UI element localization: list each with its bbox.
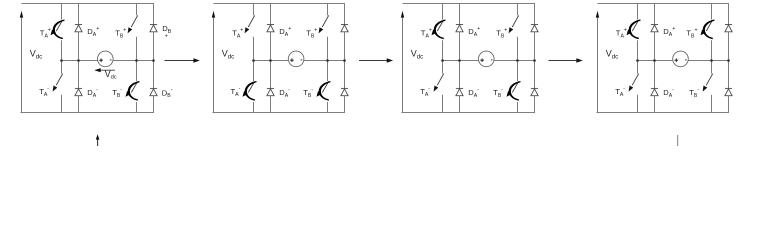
svg-text:TB-: TB- <box>689 87 699 99</box>
svg-text:DA+: DA+ <box>87 26 99 38</box>
wire: positive DC bus (stage 4) <box>598 3 730 5</box>
node: A-diode midpoint junction (stage 4) <box>653 59 656 62</box>
svg-text:Vdc: Vdc <box>411 49 424 61</box>
svg-text:TB+: TB+ <box>306 27 317 39</box>
transistor TA+ (stage 4, conducting) <box>627 4 641 61</box>
transistor TA+ (stage 1, conducting) <box>51 4 65 61</box>
wire: output node A to load (stage 4) <box>638 60 673 62</box>
svg-text:TA+: TA+ <box>232 27 243 39</box>
svg-text:DA+: DA+ <box>468 26 480 38</box>
output source vo (stage 1) <box>98 51 114 67</box>
node: A-transistor midpoint junction (stage 1) <box>60 59 63 62</box>
node: B-transistor midpoint junction (stage 1) <box>135 59 138 62</box>
svg-text:TA+: TA+ <box>616 27 627 39</box>
svg-text:Vdc: Vdc <box>105 69 117 81</box>
wire: load to output node B (stage 1) <box>113 60 153 62</box>
node: A-transistor midpoint junction (stage 3) <box>441 59 444 62</box>
wire: negative DC bus (stage 4) <box>597 112 730 114</box>
transistor TB+ (stage 3) <box>509 4 519 61</box>
transistor TB+ (stage 4, conducting) <box>701 4 715 61</box>
output voltage Vdc arrow under source (stage 1) <box>94 68 115 72</box>
node: B-diode midpoint junction (stage 4) <box>727 59 730 62</box>
wire: load to output node B (stage 2) <box>304 60 345 62</box>
transistor TB- (stage 1, conducting) <box>126 61 140 113</box>
svg-text:TA+: TA+ <box>40 27 51 39</box>
svg-text:TB-: TB- <box>493 87 503 99</box>
output source vo (stage 3) <box>479 51 495 67</box>
node: B-transistor midpoint junction (stage 4) <box>710 59 713 62</box>
svg-text:TB+: TB+ <box>686 27 697 39</box>
diode DB+ (stage 1) <box>150 4 157 61</box>
wire: positive DC bus (stage 2) <box>214 3 346 5</box>
diode DA- (stage 1) <box>75 61 82 113</box>
transistor TB- (stage 3, conducting) <box>507 61 521 113</box>
stage 2: full-bridge inverter <box>212 4 348 113</box>
svg-text:DA-: DA- <box>468 87 479 99</box>
svg-text:TA-: TA- <box>231 86 241 98</box>
wire: load to output node B (stage 3) <box>494 60 534 62</box>
diode DB- (stage 3) <box>531 61 538 113</box>
transistor TB+ (stage 1) <box>128 4 138 61</box>
wire: negative DC bus (stage 1) <box>21 112 155 114</box>
transition arrow stage2 to stage3 <box>359 58 393 63</box>
diode DB+ (stage 4) <box>725 4 732 61</box>
wire: positive DC bus (stage 3) <box>403 3 536 5</box>
diode DA+ (stage 2) <box>267 4 274 61</box>
wire: output node A to load (stage 1) <box>62 60 98 62</box>
node: B-diode midpoint junction (stage 1) <box>152 59 155 62</box>
node: B-diode midpoint junction (stage 2) <box>343 59 346 62</box>
node: A-diode midpoint junction (stage 2) <box>269 59 272 62</box>
node: B-transistor midpoint junction (stage 3) <box>516 59 519 62</box>
svg-text:+: + <box>165 34 168 40</box>
diode DB- (stage 2) <box>341 61 348 113</box>
Vdc supply voltage arrow (stage 2) <box>212 11 215 113</box>
transistor TA- (stage 2, conducting) <box>243 61 257 113</box>
svg-text:TB-: TB- <box>112 87 122 99</box>
svg-text:TA-: TA- <box>420 86 430 98</box>
node: B-transistor midpoint junction (stage 2) <box>326 59 329 62</box>
diode DB- (stage 4) <box>725 61 732 113</box>
svg-text:Vdc: Vdc <box>30 49 43 61</box>
svg-text:TA-: TA- <box>39 86 49 98</box>
diode DA+ (stage 3) <box>456 4 463 61</box>
Vdc supply voltage arrow (stage 4) <box>596 11 599 113</box>
wire: output node A to load (stage 3) <box>443 60 479 62</box>
transistor TB- (stage 2, conducting) <box>317 61 331 113</box>
pointer arrow below stage 1 <box>96 134 100 146</box>
output source vo (stage 4) <box>673 51 689 67</box>
node: A-diode midpoint junction (stage 1) <box>77 59 80 62</box>
transistor TA- (stage 3) <box>434 61 444 113</box>
wire: positive DC bus (stage 1) <box>22 3 155 5</box>
transistor TB+ (stage 2) <box>319 4 329 61</box>
Vdc supply voltage arrow (stage 3) <box>401 11 404 113</box>
transition arrow stage3 to stage4 <box>549 58 583 63</box>
transistor TA+ (stage 2) <box>245 4 255 61</box>
diode DB+ (stage 3) <box>531 4 538 61</box>
svg-text:Vdc: Vdc <box>606 49 619 61</box>
wire: load to output node B (stage 4) <box>688 60 728 62</box>
output source vo (stage 2) <box>288 51 304 67</box>
diode DA- (stage 4) <box>651 61 658 113</box>
svg-text:DA+: DA+ <box>663 26 675 38</box>
Vdc supply voltage arrow (stage 1) <box>20 11 23 113</box>
stage 1: full-bridge inverter <box>20 4 173 147</box>
svg-text:TB-: TB- <box>303 87 313 99</box>
stage 4: full-bridge inverter <box>596 4 732 113</box>
wire: negative DC bus (stage 3) <box>402 112 536 114</box>
diode DB- (stage 1) <box>150 61 157 113</box>
node: A-transistor midpoint junction (stage 4) <box>636 59 639 62</box>
diode DA+ (stage 4) <box>651 4 658 61</box>
transistor TA+ (stage 3, conducting) <box>432 4 446 61</box>
transistor TA- (stage 4) <box>629 61 639 113</box>
wire: negative DC bus (stage 2) <box>213 112 346 114</box>
svg-text:DA-: DA- <box>663 87 674 99</box>
svg-text:TA+: TA+ <box>421 27 432 39</box>
diode DA- (stage 2) <box>267 61 274 113</box>
svg-text:DA+: DA+ <box>279 26 291 38</box>
svg-text:TA-: TA- <box>615 86 625 98</box>
wire: output node A to load (stage 2) <box>254 60 289 62</box>
node: A-transistor midpoint junction (stage 2) <box>252 59 255 62</box>
svg-text:DB-: DB- <box>162 87 173 99</box>
svg-text:DA-: DA- <box>279 87 290 99</box>
svg-text:DA-: DA- <box>87 87 98 99</box>
svg-text:Vdc: Vdc <box>222 49 235 61</box>
svg-text:TB+: TB+ <box>115 27 126 39</box>
tick mark at bottom right <box>677 135 679 146</box>
diode DA- (stage 3) <box>456 61 463 113</box>
transistor TA- (stage 1) <box>53 61 63 113</box>
transition arrow stage1 to stage2 <box>165 58 200 63</box>
node: B-diode midpoint junction (stage 3) <box>533 59 536 62</box>
transistor TB- (stage 4) <box>703 61 713 113</box>
stage 3: full-bridge inverter <box>401 4 538 113</box>
diode DA+ (stage 1) <box>75 4 82 61</box>
node: A-diode midpoint junction (stage 3) <box>458 59 461 62</box>
svg-text:TB+: TB+ <box>496 27 507 39</box>
diode DB+ (stage 2) <box>341 4 348 61</box>
